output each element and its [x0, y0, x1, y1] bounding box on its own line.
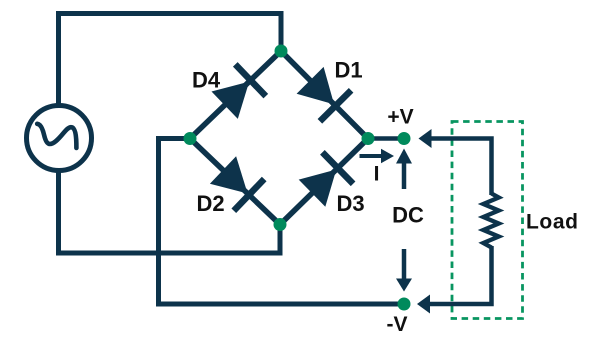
- svg-text:DC: DC: [392, 203, 424, 228]
- svg-text:Load: Load: [526, 211, 579, 234]
- svg-text:D2: D2: [197, 191, 225, 216]
- svg-text:D3: D3: [337, 191, 365, 216]
- svg-text:I: I: [374, 163, 380, 186]
- svg-text:+V: +V: [387, 106, 413, 129]
- svg-text:D1: D1: [335, 58, 363, 83]
- svg-text:-V: -V: [387, 313, 408, 336]
- svg-text:D4: D4: [192, 68, 221, 93]
